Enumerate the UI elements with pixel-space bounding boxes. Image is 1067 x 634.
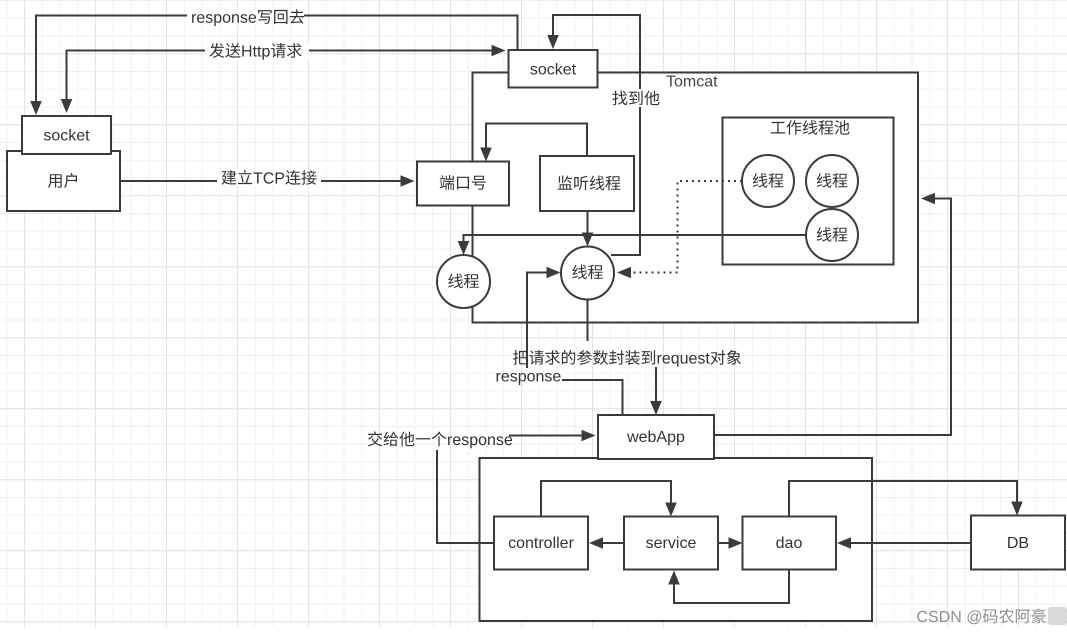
user box label 用户 xyxy=(48,173,77,188)
svg-text:Tomcat: Tomcat xyxy=(666,74,718,91)
wire service to controller, arrow left xyxy=(602,542,624,544)
service box xyxy=(624,517,718,570)
wire response label up to middle thread circle, arrow right xyxy=(527,273,548,369)
pool thread circle 2 label 线程 xyxy=(817,173,848,188)
wire 监听线程 top to 端口号 top, arrow down xyxy=(486,124,587,157)
label 发送Http请求 white backing xyxy=(205,43,309,59)
dotted wire pool thread1 to middle thread circle, arrow left xyxy=(631,181,742,273)
pool thread circle 2 xyxy=(806,155,858,207)
svg-text:socket: socket xyxy=(530,62,577,79)
left thread circle label 线程 xyxy=(448,274,479,289)
dao box xyxy=(743,517,837,570)
wire 发送Http请求: double-headed between user socket and server socket xyxy=(67,51,494,102)
svg-text:dao: dao xyxy=(776,535,803,552)
wire thread to server socket (找到他 path), arrow into socket top xyxy=(553,15,640,255)
port label 端口号 xyxy=(440,175,486,190)
watermark CSDN @码农阿豪 xyxy=(917,608,1045,624)
wire 交给他一个response to webApp left, arrow right xyxy=(509,435,583,437)
listener label 监听线程 xyxy=(558,176,621,191)
DB box xyxy=(971,516,1065,570)
wire long horizontal from pool thread3 to left thread circle, arrow down xyxy=(464,235,807,243)
svg-text:service: service xyxy=(646,535,697,552)
label 找到他 xyxy=(613,91,660,106)
label 建立TCP连接 white backing xyxy=(217,170,321,186)
wire 监听线程 bottom to middle thread circle, arrow down xyxy=(587,211,589,235)
Tomcat container box xyxy=(473,73,919,323)
wire controller left to 交给他 label xyxy=(437,450,494,543)
server socket box xyxy=(509,50,598,88)
label 发送Http请求 xyxy=(210,43,302,60)
pool thread circle 1 label 线程 xyxy=(753,173,784,188)
wire webApp right up into Tomcat right edge, arrow left xyxy=(714,199,951,436)
left thread circle xyxy=(437,255,490,308)
wire response写回去: right socket top to left socket, arrow down xyxy=(36,16,518,104)
svg-text:response: response xyxy=(496,369,562,386)
app container box xyxy=(480,458,873,621)
wire request label to webApp top, arrow down xyxy=(655,367,657,403)
label 建立TCP连接 xyxy=(222,170,317,185)
label 交给他一个response xyxy=(368,431,512,448)
client socket box xyxy=(22,116,111,154)
watermark ghost square xyxy=(1048,607,1067,625)
port box 端口号 xyxy=(417,162,509,206)
wire 建立TCP连接: user to 端口号, arrow right xyxy=(120,180,402,182)
webApp box xyxy=(598,415,714,459)
pool thread circle 1 xyxy=(742,155,794,207)
svg-text:DB: DB xyxy=(1007,535,1029,552)
wire middle thread circle bottom down to request label xyxy=(587,300,589,342)
wire controller top over to service top, arrow down xyxy=(541,481,671,517)
user box 用户 xyxy=(7,151,120,211)
wire dao top over to DB top, arrow down xyxy=(789,481,1017,517)
wire webApp top to response label xyxy=(562,380,623,415)
label response写回去 xyxy=(192,9,304,26)
worker thread pool box 工作线程池 xyxy=(723,118,894,265)
wire DB to dao, arrow left xyxy=(850,542,971,544)
wire service to dao, arrow right xyxy=(718,542,730,544)
controller box xyxy=(494,517,588,570)
listener box 监听线程 xyxy=(540,156,634,211)
wire dao bottom loop to service bottom, arrow up xyxy=(674,570,789,604)
svg-text:socket: socket xyxy=(43,128,90,145)
middle thread circle xyxy=(561,247,614,300)
label 找到他 white backing xyxy=(608,89,664,107)
label 把请求的参数封装到request对象 xyxy=(513,350,741,367)
svg-text:controller: controller xyxy=(508,535,574,552)
label response写回去 white backing xyxy=(187,9,304,25)
pool thread circle 3 xyxy=(806,209,858,261)
worker pool label 工作线程池 xyxy=(771,120,850,135)
pool thread circle 3 label 线程 xyxy=(817,227,848,242)
svg-text:webApp: webApp xyxy=(626,429,685,446)
middle thread circle label 线程 xyxy=(572,265,603,280)
